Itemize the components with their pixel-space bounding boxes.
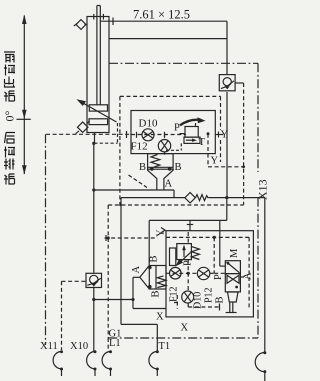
top valve block: [131, 111, 215, 154]
label 0 degrees: [3, 111, 17, 122]
wire to valve P: [219, 220, 221, 266]
shuttle valve S1: [148, 154, 174, 190]
solenoid valve U3 (rotated): [225, 261, 244, 313]
label F12: [131, 140, 148, 152]
label B rotated (valve): [215, 296, 226, 303]
label B rotated (shuttle bottom): [151, 290, 162, 297]
right main line down: [264, 198, 266, 352]
gauge point F12 (crossed circle): [158, 140, 170, 152]
hose connector L1: [102, 350, 112, 376]
Y pilot dashed: [207, 134, 209, 167]
reducing valve U2 (rotated): [170, 244, 200, 267]
top manifold dashed enclosure: [120, 96, 221, 208]
svg-text:7.61 × 12.5: 7.61 × 12.5: [133, 8, 190, 22]
svg-text:F12: F12: [169, 286, 180, 302]
wire from A-junction to bottom block: [226, 198, 228, 221]
B pilot dashed: [107, 236, 110, 239]
bottom valve block: [166, 231, 253, 317]
pilot dashed to top block port: [46, 133, 131, 135]
pilot diagonal to shuttle: [129, 175, 148, 188]
shuttle valve S2 (rotated, points left): [133, 266, 166, 290]
label F12 rotated: [169, 286, 180, 302]
shuttle out wire: [132, 277, 134, 308]
A line right with check valve: [121, 197, 185, 199]
label A rotated: [243, 272, 254, 280]
svg-text:X11: X11: [40, 341, 58, 352]
pilot line through D10: [131, 134, 186, 136]
wire rod-port to check block: [109, 38, 227, 40]
label B left: [139, 162, 146, 173]
label A: [165, 179, 173, 190]
label front-tilt rope-out (CJK, drawn strokes): [4, 52, 15, 102]
svg-text:D10: D10: [139, 117, 158, 129]
svg-text:X: X: [156, 312, 164, 323]
svg-text:M: M: [229, 248, 240, 258]
X13 line dash-dot vertical: [257, 63, 259, 172]
X11 pilot dashed: [62, 280, 87, 282]
label T: [199, 137, 206, 148]
check valve V2 (diamond): [185, 192, 195, 202]
svg-text:A: A: [131, 266, 142, 274]
G1 return wire: [120, 198, 122, 325]
check block V3 on pipe: [86, 273, 102, 287]
svg-text:F12: F12: [131, 140, 148, 152]
L1 dashed drop: [107, 338, 109, 350]
gauge point P12: [197, 267, 209, 279]
cushion adjust arrow: [79, 101, 117, 123]
pilot dashed Y into bottom section: [108, 204, 243, 206]
svg-text:B: B: [149, 255, 160, 262]
dimension leader 7.61x12.5: [100, 20, 227, 22]
pipe below V3 to X10: [93, 288, 95, 300]
piston rod: [96, 6, 98, 105]
label P: [174, 123, 180, 134]
T drain dot: [207, 132, 210, 135]
svg-text:T: T: [199, 137, 206, 148]
wire down to check block: [226, 21, 228, 74]
label Y rotated: [156, 229, 167, 237]
label P rotated: [183, 260, 194, 266]
gauge point D10 bottom: [182, 291, 194, 303]
label B rotated (shuttle top): [149, 255, 160, 262]
label Y2: [211, 156, 219, 167]
cushion pilot dashed: [94, 142, 117, 144]
hose connector T1: [149, 350, 159, 376]
bottom dashed enclosure: [107, 205, 109, 338]
label D10: [139, 117, 158, 129]
label X13: [256, 179, 270, 200]
svg-text:B: B: [175, 162, 182, 173]
label rear-tilt rope-in (CJK, drawn strokes): [4, 133, 15, 185]
reducing valve U1: [166, 117, 206, 150]
labels bottom: [40, 329, 170, 353]
svg-text:Y: Y: [211, 156, 219, 167]
wire below V1 down to A line: [226, 92, 228, 198]
svg-text:Y: Y: [156, 229, 167, 237]
test point TP2 (diamond, piston side): [76, 121, 90, 134]
A line to pipe: [92, 188, 95, 191]
svg-text:B: B: [151, 290, 162, 297]
label X (bottom): [181, 323, 189, 334]
gauge point D10 (crossed circle): [142, 129, 154, 141]
port Y right: [215, 134, 223, 136]
T1 drop: [156, 324, 158, 351]
hose connector right: [255, 351, 266, 381]
cylinder body: [87, 17, 109, 133]
gauge point F12 bottom: [170, 267, 182, 279]
test point TP1 (diamond, rod side): [74, 20, 87, 30]
cylinder bottom pipe: [94, 133, 96, 144]
svg-text:X13: X13: [256, 179, 270, 200]
svg-text:P12: P12: [204, 287, 215, 303]
svg-text:T1: T1: [159, 341, 171, 352]
spring W: [196, 195, 209, 201]
bottom block top port: [189, 220, 191, 231]
svg-text:X10: X10: [70, 341, 88, 352]
label D10 rotated: [193, 292, 204, 309]
label M rotated: [229, 248, 240, 258]
label P rotated (valve): [213, 274, 224, 280]
svg-text:A: A: [165, 179, 173, 190]
svg-text:A: A: [243, 272, 254, 280]
inner dashed enclosure bottom: [166, 237, 249, 308]
dimension text: [133, 8, 190, 22]
pilot dashes bottom block: [166, 232, 225, 309]
boundary dash-dot left: [45, 134, 47, 345]
svg-text:Y: Y: [221, 130, 229, 141]
piston: [89, 105, 107, 111]
label Y: [221, 130, 229, 141]
svg-text:L1: L1: [109, 338, 121, 349]
svg-text:0°: 0°: [3, 111, 17, 122]
rod gland ticks: [93, 14, 95, 20]
label P12 rotated: [204, 287, 215, 303]
svg-text:P: P: [174, 123, 180, 134]
X13 line dash-dot horizontal: [109, 62, 258, 64]
label B right: [175, 162, 182, 173]
svg-text:B: B: [139, 162, 146, 173]
label X (left): [156, 312, 164, 323]
svg-text:P: P: [213, 274, 224, 280]
svg-text:B: B: [215, 296, 226, 303]
label A rotated (shuttle): [131, 266, 142, 274]
hose connector X11: [53, 350, 63, 376]
hose connector X10: [87, 350, 97, 376]
svg-text:X: X: [181, 323, 189, 334]
check valve block V1 (square w/ ball): [219, 75, 243, 91]
angle indicator arrow: [17, 15, 31, 175]
wire V3 junction to shuttle drop: [94, 299, 133, 301]
pilot line through F12: [164, 135, 166, 140]
